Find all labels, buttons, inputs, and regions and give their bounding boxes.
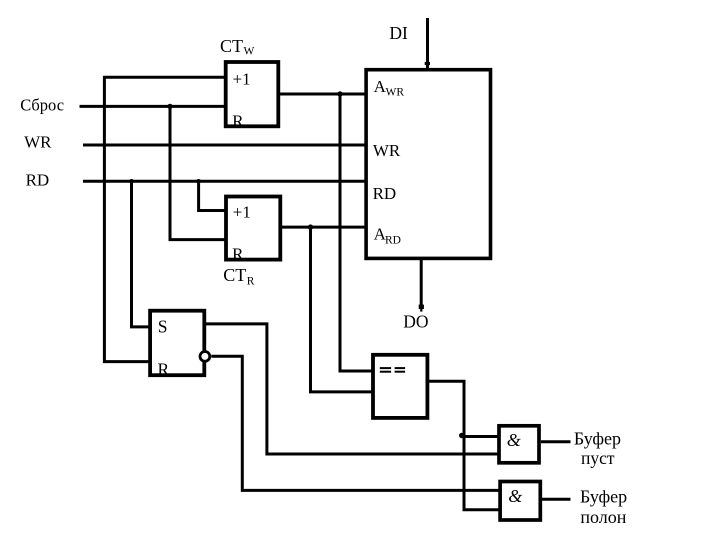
- svg-text:Буфер: Буфер: [574, 428, 621, 448]
- svg-text:RD: RD: [385, 234, 401, 246]
- svg-text:+1: +1: [233, 202, 251, 221]
- svg-text:Буфер: Буфер: [580, 486, 627, 506]
- svg-text:CT: CT: [223, 265, 246, 285]
- svg-text:+1: +1: [233, 70, 251, 89]
- svg-text:полон: полон: [580, 507, 626, 527]
- svg-text:RD: RD: [26, 170, 50, 189]
- svg-text:RD: RD: [373, 184, 397, 203]
- svg-text:R: R: [247, 276, 255, 288]
- svg-text:DO: DO: [403, 312, 428, 332]
- svg-text:DI: DI: [389, 23, 408, 43]
- svg-text:W: W: [244, 46, 255, 58]
- svg-text:WR: WR: [386, 86, 405, 98]
- svg-text:R: R: [232, 112, 244, 131]
- svg-text:WR: WR: [24, 133, 52, 152]
- svg-text:&: &: [508, 486, 522, 506]
- svg-text:R: R: [158, 360, 170, 380]
- svg-text:CT: CT: [220, 36, 243, 56]
- svg-text:S: S: [158, 316, 168, 336]
- svg-text:WR: WR: [373, 141, 401, 160]
- svg-text:R: R: [232, 245, 244, 264]
- svg-text:пуст: пуст: [581, 448, 615, 468]
- svg-text:Сброс: Сброс: [20, 95, 64, 114]
- svg-text:&: &: [507, 430, 521, 450]
